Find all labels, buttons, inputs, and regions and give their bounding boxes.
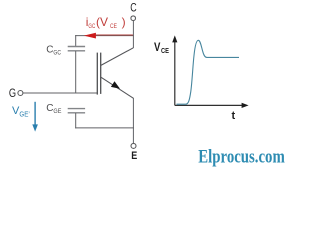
svg-text:Elprocus.com: Elprocus.com [198,147,285,168]
svg-text:CE: CE [161,46,169,55]
svg-text:GC: GC [88,23,95,30]
label VCE graph [154,42,169,55]
emitter arrow [111,81,120,89]
transistor Q1 IGBT [97,48,133,99]
svg-text:t: t [232,110,236,122]
current arrow iGC [84,33,133,39]
node C terminal [130,3,136,21]
node G terminal [9,88,23,100]
graph x-axis t [175,103,249,108]
node E terminal [131,143,137,162]
label C_GC [46,45,61,57]
svg-text:G: G [9,88,16,100]
svg-text:GE’: GE’ [19,111,30,118]
emitter diagonal [101,77,134,98]
svg-text:E: E [131,150,137,162]
wire collector vertical [132,21,134,48]
svg-text:CE: CE [110,23,118,30]
voltage arrow VGE' [32,102,38,132]
wire C_GC lower vertical [75,51,77,93]
label iGC(VCE) [86,15,126,30]
wire C_GE lower vertical [75,113,77,128]
wire emitter vertical [132,98,134,143]
collector diagonal [101,48,133,66]
svg-text:C: C [130,3,136,15]
svg-text:(V: (V [96,15,108,29]
svg-text:GC: GC [53,50,61,57]
wire bottom horizontal [75,127,134,129]
svg-text:V: V [154,42,161,54]
graph y-axis VCE [172,35,177,105]
capacitor C_GC [68,47,85,51]
svg-text:C: C [46,103,53,114]
curve VCE(t) [177,40,240,104]
svg-text:GE: GE [53,108,62,115]
wire C_GC upper vertical [75,35,77,46]
gate bar [96,53,98,95]
label C_GE [46,103,62,115]
svg-text:): ) [122,15,126,29]
label VGE' [12,105,30,118]
capacitor C_GE [68,109,85,113]
wire top horizontal gate-collector branch [75,35,134,37]
body bar [100,53,102,94]
wire gate horizontal [23,92,97,94]
svg-text:C: C [46,45,53,56]
